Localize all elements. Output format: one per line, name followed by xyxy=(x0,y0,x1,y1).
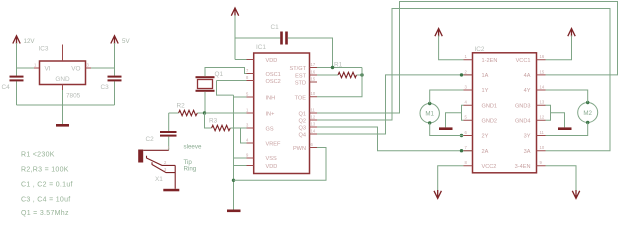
svg-text:Ring: Ring xyxy=(184,166,197,173)
capacitor C2 xyxy=(160,131,177,137)
svg-text:OSC1: OSC1 xyxy=(266,72,281,78)
svg-text:16: 16 xyxy=(311,70,316,75)
resistor R3 xyxy=(212,125,247,130)
svg-text:VCC1: VCC1 xyxy=(516,58,531,64)
node M1 bottom xyxy=(428,121,431,124)
svg-text:TOE: TOE xyxy=(295,96,307,102)
svg-text:Q1 = 3.57Mhz: Q1 = 3.57Mhz xyxy=(21,210,69,217)
wire GND stem xyxy=(62,90,64,124)
svg-text:11: 11 xyxy=(540,130,545,135)
wire GND1 GND2 bracket xyxy=(446,105,464,127)
wire arrow to VCC1 xyxy=(546,36,572,60)
ground under 7805 xyxy=(56,124,69,127)
pin 2 stub IC3 GND xyxy=(62,85,64,91)
svg-text:C3 , C4 = 10uf: C3 , C4 = 10uf xyxy=(21,197,71,204)
svg-text:STD: STD xyxy=(295,81,306,87)
svg-text:3Y: 3Y xyxy=(524,134,531,140)
wire 5V arrow down xyxy=(234,15,236,60)
svg-text:5V: 5V xyxy=(122,38,130,45)
pin stubs IC1 right xyxy=(310,62,318,148)
svg-text:15: 15 xyxy=(540,69,545,74)
node 1A xyxy=(460,73,463,76)
node ground bus xyxy=(232,179,235,182)
wire Q4 to 1A xyxy=(317,75,473,134)
svg-text:VI: VI xyxy=(45,66,51,73)
svg-text:R2,R3 = 100K: R2,R3 = 100K xyxy=(21,167,69,174)
node A junction R2 R3 crystal IN xyxy=(203,111,206,114)
svg-text:4: 4 xyxy=(465,100,468,105)
svg-text:17: 17 xyxy=(311,62,316,67)
svg-text:R3: R3 xyxy=(209,118,218,125)
pin stub IC3 top xyxy=(62,45,64,62)
svg-text:VO: VO xyxy=(71,66,80,73)
pin 1 stub IC3 xyxy=(34,67,40,69)
svg-text:2: 2 xyxy=(164,160,167,165)
svg-text:GND: GND xyxy=(55,76,70,83)
svg-text:OSC2: OSC2 xyxy=(266,79,281,85)
svg-text:C1 , C2 = 0.1uf: C1 , C2 = 0.1uf xyxy=(21,182,73,189)
svg-text:8: 8 xyxy=(246,75,249,80)
svg-text:8: 8 xyxy=(465,160,468,165)
crystal Q1 xyxy=(196,76,215,92)
svg-text:VREF: VREF xyxy=(266,142,282,148)
regulator IC3 7805 xyxy=(40,61,86,85)
supply arrow 5V xyxy=(111,36,118,44)
svg-text:IC2: IC2 xyxy=(475,46,485,53)
svg-text:Q1: Q1 xyxy=(299,112,306,118)
wire ground bus vertical xyxy=(233,95,235,209)
supply arrow 5V at IC2 pin16 xyxy=(568,29,575,37)
wire crystal bottom to node xyxy=(204,92,206,113)
svg-text:C3: C3 xyxy=(101,84,110,91)
svg-text:Q3: Q3 xyxy=(299,126,306,132)
svg-text:15: 15 xyxy=(311,77,316,82)
svg-text:12: 12 xyxy=(311,115,316,120)
capacitor C4 xyxy=(10,76,24,82)
wire M2 top to 4Y xyxy=(546,90,588,103)
node M2 top xyxy=(586,101,589,104)
wire R2 corner down to C2 xyxy=(168,113,170,131)
svg-text:2: 2 xyxy=(465,69,468,74)
svg-text:Q4: Q4 xyxy=(299,133,306,139)
svg-text:VCC2: VCC2 xyxy=(482,164,497,170)
pin 3 stub IC3 xyxy=(86,67,92,69)
wire M2 bottom to 3Y xyxy=(546,123,588,136)
svg-text:IC1: IC1 xyxy=(256,44,266,51)
svg-text:VDD: VDD xyxy=(266,58,278,64)
node M2 bottom xyxy=(586,121,589,124)
svg-text:ST/GT: ST/GT xyxy=(290,66,307,72)
resistor R2 xyxy=(169,110,205,115)
svg-text:4: 4 xyxy=(246,138,249,143)
wire PWN to ground bus xyxy=(234,148,327,181)
svg-text:3: 3 xyxy=(87,63,90,68)
wire node to IN xyxy=(205,112,247,114)
svg-text:13: 13 xyxy=(311,122,316,127)
wire VO to 5V xyxy=(91,67,115,69)
svg-text:1: 1 xyxy=(465,54,468,59)
svg-text:1A: 1A xyxy=(482,73,489,79)
wire OSC2 xyxy=(217,81,247,96)
node StGT C1 xyxy=(331,66,334,69)
wire Q2 to 3A xyxy=(317,9,610,151)
wire C1 to StGT node xyxy=(288,38,333,68)
wire C1 branch left xyxy=(235,37,280,39)
ground under IC1 xyxy=(227,210,241,213)
pin stubs IC1 left xyxy=(246,60,254,166)
node M1 top xyxy=(428,102,431,105)
wire VCC2 to ground arrow xyxy=(438,166,464,191)
svg-text:16: 16 xyxy=(540,54,545,59)
svg-text:12V: 12V xyxy=(24,38,36,45)
svg-text:3-4EN: 3-4EN xyxy=(515,164,531,170)
wire 3-4EN to ground arrow xyxy=(546,166,577,191)
svg-text:3: 3 xyxy=(246,123,249,128)
svg-text:5: 5 xyxy=(246,92,249,97)
svg-text:M1: M1 xyxy=(425,111,434,118)
svg-text:1: 1 xyxy=(168,145,171,150)
svg-text:9: 9 xyxy=(540,160,543,165)
svg-text:1-2EN: 1-2EN xyxy=(482,58,498,64)
wire INH to ground bus xyxy=(234,96,247,98)
svg-text:Q2: Q2 xyxy=(299,119,306,125)
svg-text:1: 1 xyxy=(246,108,249,113)
wire 12V vertical xyxy=(16,43,18,105)
svg-text:7: 7 xyxy=(465,145,468,150)
svg-text:14: 14 xyxy=(311,129,316,134)
wire Q3 to 2A xyxy=(317,127,473,151)
svg-text:sleeve: sleeve xyxy=(184,144,202,151)
svg-text:M2: M2 xyxy=(583,110,592,117)
capacitor C3 xyxy=(108,76,122,82)
pin stubs IC2 right xyxy=(537,54,546,166)
svg-text:7: 7 xyxy=(246,68,249,73)
svg-text:3: 3 xyxy=(164,167,167,172)
svg-text:12: 12 xyxy=(540,115,545,120)
wire M1 top to 1Y xyxy=(430,90,464,104)
svg-text:R2: R2 xyxy=(177,103,186,110)
wire 5V vertical xyxy=(114,43,116,105)
svg-text:Q1: Q1 xyxy=(215,71,224,78)
wire GS to VREF xyxy=(241,128,247,143)
svg-text:GND4: GND4 xyxy=(515,118,531,124)
wire crystal top to OSC1 xyxy=(205,68,247,77)
ground arrow left xyxy=(434,190,441,198)
svg-text:10: 10 xyxy=(540,145,545,150)
svg-text:VDD: VDD xyxy=(266,164,278,170)
svg-text:4Y: 4Y xyxy=(524,88,531,94)
svg-text:1: 1 xyxy=(34,63,37,68)
svg-text:10: 10 xyxy=(311,91,316,96)
wire node down to R3 xyxy=(205,113,212,128)
svg-text:2A: 2A xyxy=(482,149,489,155)
connector X1 phone jack xyxy=(138,150,175,189)
svg-text:7805: 7805 xyxy=(66,93,81,100)
supply arrow 5V at IC2 pin1 xyxy=(435,29,442,37)
svg-text:9: 9 xyxy=(246,153,249,158)
svg-text:IN+: IN+ xyxy=(266,112,275,118)
node R1 right xyxy=(360,73,363,76)
svg-text:GND3: GND3 xyxy=(515,103,531,109)
node 2A xyxy=(460,149,463,152)
svg-text:INH: INH xyxy=(266,96,276,102)
svg-text:11: 11 xyxy=(311,108,316,113)
wire GND3 GND4 bracket xyxy=(546,105,565,127)
supply arrow 12V xyxy=(13,36,20,44)
node 2Y xyxy=(460,134,463,137)
ground arrow right xyxy=(572,190,579,198)
wire M1 bottom to 2Y xyxy=(430,123,464,136)
svg-text:X1: X1 xyxy=(155,176,163,183)
wire VSS to ground bus xyxy=(234,157,247,159)
ground under jack xyxy=(163,189,179,192)
motor M2 xyxy=(578,103,598,123)
wire StGT xyxy=(317,67,362,69)
svg-text:1Y: 1Y xyxy=(482,88,489,94)
svg-text:R1: R1 xyxy=(334,62,343,69)
IC IC1 MT8870 DTMF decoder xyxy=(254,53,310,174)
capacitor C1 xyxy=(280,32,288,45)
wire R1 node down to TOE xyxy=(317,68,362,97)
wire Q1 to 4A xyxy=(317,2,618,114)
wire C2 to jack xyxy=(168,137,170,151)
svg-text:3: 3 xyxy=(465,84,468,89)
svg-text:3A: 3A xyxy=(524,149,531,155)
svg-text:C4: C4 xyxy=(2,84,11,91)
wire 12V to VI xyxy=(17,67,35,69)
svg-text:2Y: 2Y xyxy=(482,134,489,140)
supply arrow 5V at IC1 xyxy=(231,8,238,16)
svg-text:PWN: PWN xyxy=(293,146,306,152)
svg-text:GND2: GND2 xyxy=(482,118,498,124)
svg-text:6: 6 xyxy=(311,142,314,147)
ground at M2 xyxy=(558,127,572,130)
svg-text:EST: EST xyxy=(295,74,306,80)
wire bottom rail regulator xyxy=(17,104,115,106)
motor M1 xyxy=(420,104,439,123)
pin stubs IC2 left xyxy=(464,54,473,166)
svg-text:VSS: VSS xyxy=(266,156,277,162)
wire VDD bottom to ground bus xyxy=(234,165,247,167)
wire VDD xyxy=(235,59,247,61)
svg-text:4A: 4A xyxy=(524,73,531,79)
svg-text:GS: GS xyxy=(266,127,274,133)
IC IC2 L293D motor driver xyxy=(473,53,537,173)
svg-text:R1 <230K: R1 <230K xyxy=(21,152,55,159)
svg-text:GND1: GND1 xyxy=(482,103,498,109)
svg-text:C1: C1 xyxy=(271,24,280,31)
svg-text:14: 14 xyxy=(540,84,545,89)
ground at M1 xyxy=(439,127,453,130)
svg-text:5: 5 xyxy=(465,115,468,120)
resistor R1 xyxy=(317,72,362,77)
svg-text:13: 13 xyxy=(540,100,545,105)
wire arrow to 1-2EN xyxy=(439,36,464,60)
svg-text:6: 6 xyxy=(465,130,468,135)
svg-text:IC3: IC3 xyxy=(39,46,49,53)
svg-text:C2: C2 xyxy=(146,136,155,143)
